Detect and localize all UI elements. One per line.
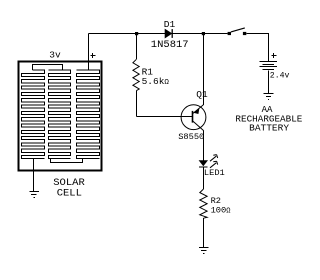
wire top rail from solar to switch bbox=[89, 33, 228, 35]
ground solar cell bbox=[29, 192, 39, 198]
svg-text:100Ω: 100Ω bbox=[211, 206, 231, 216]
wire Q1 collector to LED1 bbox=[203, 131, 205, 161]
svg-text:2.4v: 2.4v bbox=[270, 71, 290, 80]
svg-text:D1: D1 bbox=[164, 19, 176, 30]
svg-text:S8550: S8550 bbox=[178, 132, 204, 142]
resistor R1 zigzag body bbox=[133, 59, 139, 90]
wire R2 to ground bbox=[203, 218, 205, 247]
diode D1 bbox=[165, 29, 172, 38]
resistor R1 vertical leads bbox=[136, 34, 138, 117]
solar cell PV1 outline bbox=[19, 62, 102, 171]
switch S1 open SPST bbox=[228, 28, 247, 35]
svg-text:Q1: Q1 bbox=[196, 89, 208, 100]
wire battery negative to ground bbox=[268, 70, 270, 93]
label + solar terminal bbox=[91, 53, 96, 58]
svg-text:CELL: CELL bbox=[57, 188, 82, 200]
ground battery bbox=[263, 94, 273, 100]
wire switch to battery corner bbox=[246, 34, 268, 62]
resistor R2 zigzag body bbox=[200, 189, 207, 218]
svg-text:5.6kΩ: 5.6kΩ bbox=[142, 76, 170, 87]
ground R2 bbox=[199, 248, 209, 254]
solar cell bottom bus bridge col2-col3 bbox=[51, 159, 83, 163]
solar cell top bus bridge col1-col2 bbox=[33, 65, 63, 71]
solar cell serpentine column 3 bbox=[77, 70, 100, 159]
wire top rail junction down to Q1 emitter bbox=[203, 34, 205, 105]
LED LED1 bbox=[199, 155, 218, 168]
svg-text:3v: 3v bbox=[49, 49, 61, 60]
svg-text:LED1: LED1 bbox=[204, 168, 225, 178]
svg-text:1N5817: 1N5817 bbox=[151, 39, 189, 51]
wire solar positive lead bbox=[88, 34, 90, 71]
solar cell serpentine column 2 bbox=[48, 70, 70, 159]
wire R1 to Q1 base bbox=[137, 116, 193, 118]
wire solar negative lead to ground bbox=[33, 159, 35, 191]
node junction top of R1 bbox=[135, 32, 138, 35]
transistor Q1 PNP bbox=[181, 105, 206, 131]
battery BT1 plates bbox=[260, 62, 278, 70]
svg-text:R2: R2 bbox=[211, 196, 221, 206]
node junction top of Q1 emitter bbox=[202, 32, 205, 35]
label + battery terminal bbox=[272, 53, 277, 58]
wire LED1 to R2 bbox=[203, 167, 205, 189]
solar cell serpentine column 1 bbox=[22, 70, 45, 159]
svg-text:BATTERY: BATTERY bbox=[249, 122, 289, 133]
